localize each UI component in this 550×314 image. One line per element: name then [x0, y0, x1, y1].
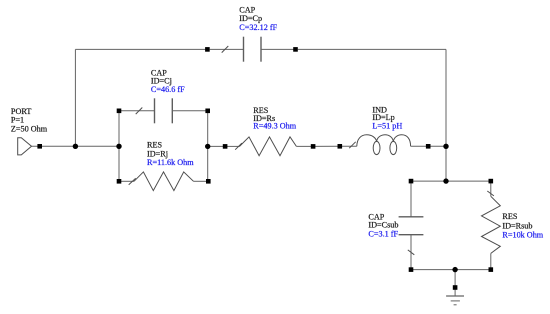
resistor Rsub pin 2	[489, 267, 494, 272]
resistor Rsub value label R=10k Ohm	[502, 231, 543, 240]
capacitor Cp pin 2	[293, 47, 298, 52]
svg-text:C=46.6 fF: C=46.6 fF	[151, 85, 185, 94]
inductor Lp coil hump 1	[357, 135, 377, 147]
resistor Rs value label R=49.3 Ohm	[253, 122, 296, 131]
node F junction	[452, 267, 457, 272]
node E junction	[443, 178, 448, 183]
wire bottom net	[411, 269, 491, 271]
resistor Rj value label R=11.6k Ohm	[147, 158, 194, 167]
wire node E to Rsub	[446, 180, 491, 182]
wire Rs to Lp	[313, 145, 340, 147]
wire Cp pin1 stub	[210, 48, 244, 50]
resistor Rj name label	[147, 140, 168, 158]
port P1 name label	[11, 107, 48, 133]
svg-text:RES: RES	[147, 140, 162, 149]
capacitor Cp pin 1	[205, 47, 210, 52]
wire Rs pin1 stub	[225, 145, 239, 147]
wire Rsub pin1 stub	[490, 181, 492, 196]
wire Rsub pin2 stub	[490, 253, 492, 269]
resistor Rs pin 1	[223, 144, 228, 149]
ground bar 1	[446, 295, 464, 297]
wire node C to Rs	[208, 145, 225, 147]
capacitor Cj pin-1 slash mark	[136, 108, 143, 115]
svg-text:PORT: PORT	[11, 107, 31, 116]
capacitor Cp name label	[239, 5, 262, 23]
inductor Lp name label	[372, 105, 394, 122]
wire top net right segment	[298, 48, 446, 50]
capacitor Csub value label C=3.1 fF	[368, 229, 398, 238]
inductor Lp coil loop 1	[373, 141, 380, 154]
capacitor Cp pin-1 slash mark	[222, 46, 229, 53]
wire Rs pin2 stub	[296, 145, 313, 147]
wire RC-block right vertical	[207, 111, 209, 182]
wire Lp pin1 stub	[340, 145, 357, 147]
wire Cj pin1 stub	[119, 110, 155, 112]
resistor Rsub pin 1	[489, 179, 494, 184]
resistor Rj pin-1 slash mark	[129, 178, 136, 185]
capacitor Cj value label C=46.6 fF	[151, 85, 185, 94]
capacitor Cj pin 2	[205, 109, 210, 114]
capacitor Cp left plate	[243, 37, 245, 62]
wire Lp to node D	[428, 145, 446, 147]
capacitor Csub name label	[368, 212, 398, 229]
svg-text:R=11.6k Ohm: R=11.6k Ohm	[147, 158, 194, 167]
resistor Rs zigzag body	[240, 137, 297, 156]
node A junction	[73, 144, 78, 149]
wire node F to ground	[454, 270, 456, 296]
inductor Lp pin 1	[338, 144, 343, 149]
wire Csub pin1 stub	[410, 181, 412, 217]
wire node E to Csub	[411, 180, 446, 182]
inductor Lp value label L=51 pH	[372, 121, 402, 130]
inductor Lp pin 2	[426, 144, 431, 149]
capacitor Csub pin-2 slash mark	[408, 250, 415, 255]
capacitor Cj right plate	[171, 98, 173, 123]
svg-text:C=3.1 fF: C=3.1 fF	[368, 229, 398, 238]
capacitor Cj pin 1	[117, 109, 122, 114]
svg-text:ID=Rsub: ID=Rsub	[502, 221, 532, 230]
svg-text:ID=Cp: ID=Cp	[239, 14, 262, 23]
wire node D down to node E	[445, 146, 447, 181]
resistor Rs pin-1 slash mark	[235, 143, 242, 150]
resistor Rsub pin-1 slash mark	[487, 191, 494, 196]
inductor Lp coil hump 2	[377, 135, 394, 142]
node B junction	[116, 144, 121, 149]
svg-text:Z=50 Ohm: Z=50 Ohm	[11, 124, 48, 133]
svg-text:CAP: CAP	[239, 5, 255, 14]
wire Rj pin1 stub	[119, 180, 134, 182]
wire RC-block left vertical	[118, 111, 120, 182]
inductor Lp coil hump 3	[393, 135, 410, 147]
wire riser top net down to node D	[445, 49, 447, 146]
capacitor Csub pin 1	[409, 179, 414, 184]
ground bar 2	[451, 300, 460, 302]
capacitor Csub bottom plate	[399, 234, 424, 236]
svg-text:L=51 pH: L=51 pH	[372, 121, 402, 130]
capacitor Cj name label	[151, 68, 172, 85]
resistor Rj pin 1	[117, 179, 122, 184]
wire riser node A up to top net	[74, 49, 76, 146]
resistor Rs name label	[253, 106, 275, 123]
port P1 pin 1	[37, 144, 42, 149]
wire port to node A	[32, 145, 76, 147]
resistor Rj pin 2	[206, 179, 211, 184]
resistor Rsub name label	[502, 212, 532, 230]
capacitor Cp right plate	[260, 37, 262, 62]
wire node A to node B	[75, 145, 119, 147]
wire top net left segment	[75, 48, 207, 50]
ground pin	[453, 285, 458, 290]
svg-text:RES: RES	[502, 212, 517, 221]
node D junction	[443, 144, 448, 149]
capacitor Cj left plate	[154, 98, 156, 123]
node C junction	[205, 144, 210, 149]
capacitor Csub top plate	[399, 216, 424, 218]
svg-text:R=10k Ohm: R=10k Ohm	[502, 231, 543, 240]
ground bar 3	[454, 304, 457, 306]
wire Csub pin2 stub	[410, 235, 412, 270]
capacitor Cp value label C=32.12 fF	[239, 23, 277, 32]
capacitor Csub pin 2	[409, 267, 414, 272]
svg-text:ID=Csub: ID=Csub	[368, 221, 398, 230]
inductor Lp pin-1 slash mark	[349, 142, 356, 148]
wire Lp pin2 stub	[411, 145, 429, 147]
wire Rj pin2 stub	[194, 180, 209, 182]
wire Cp pin2 stub	[261, 48, 296, 50]
resistor Rj zigzag body	[134, 172, 194, 191]
resistor Rsub zigzag body	[482, 196, 501, 253]
resistor Rs pin 2	[311, 144, 316, 149]
svg-text:C=32.12 fF: C=32.12 fF	[239, 23, 277, 32]
inductor Lp coil loop 2	[390, 141, 397, 154]
svg-text:R=49.3 Ohm: R=49.3 Ohm	[253, 122, 296, 131]
port P1	[18, 138, 32, 155]
wire Cj pin2 stub	[172, 110, 207, 112]
